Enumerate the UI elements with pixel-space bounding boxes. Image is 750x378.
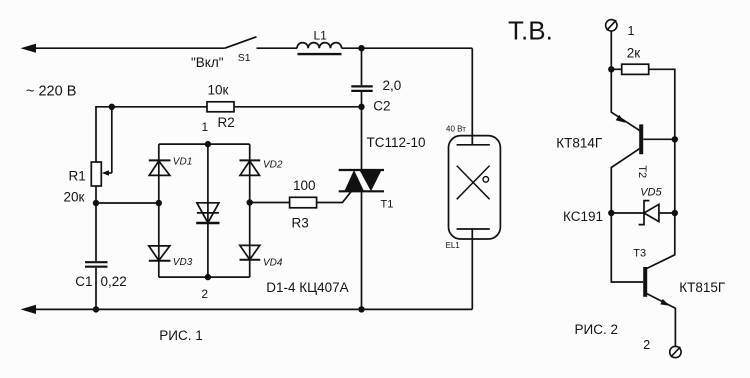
center diode pair symbol — [197, 203, 219, 223]
wire L1 to lamp corner — [342, 47, 473, 49]
svg-text:R2: R2 — [218, 115, 235, 130]
wire triac anode lower — [361, 191, 363, 309]
junction base T2 / right vertical — [672, 136, 678, 142]
wire C1 lower lead — [95, 268, 97, 310]
wire emitter T2 feed — [611, 69, 639, 130]
arrow left on bottom rail — [21, 305, 37, 314]
svg-text:КТ815Г: КТ815Г — [679, 280, 726, 295]
transistor T2 collector — [611, 149, 639, 213]
wire bottom rail — [30, 308, 472, 310]
wire R3 to triac gate — [317, 191, 352, 202]
wire terminal 1 lead — [610, 31, 612, 69]
junction R1/C1/bridge-left — [93, 200, 99, 206]
junction top rail / C2 branch — [358, 45, 364, 51]
transistor T3 emitter — [647, 294, 676, 347]
junction triac branch / bottom rail — [358, 306, 364, 312]
lamp electrode bottom — [457, 228, 490, 230]
svg-text:20к: 20к — [64, 189, 85, 204]
svg-text:Т2: Т2 — [636, 165, 648, 178]
wire R1 bottom lead — [95, 186, 97, 203]
transistor T3 emitter arrow — [660, 299, 669, 306]
wire R2 rail left part — [96, 107, 207, 162]
svg-text:Т1: Т1 — [381, 199, 394, 211]
junction zener left — [608, 210, 614, 216]
transistor T2 base bar — [639, 124, 643, 154]
triac T1 top bar — [339, 169, 384, 171]
wire right vertical to zener — [674, 139, 676, 213]
lamp cross — [457, 166, 490, 200]
svg-text:VD1: VD1 — [173, 157, 192, 168]
lamp EL1 body — [449, 136, 501, 239]
bridge bottom rail — [159, 276, 250, 278]
inductor L1 core — [298, 53, 342, 55]
wire collector T2 to T3 base — [611, 213, 643, 282]
svg-text:40 Вт: 40 Вт — [446, 125, 466, 134]
resistor 2к — [622, 64, 649, 74]
wire triac anode upper — [361, 107, 363, 170]
wire to bridge left mid — [96, 202, 159, 204]
svg-text:1: 1 — [202, 120, 209, 134]
wire 2k to right vertical — [649, 69, 675, 139]
diode VD2 — [240, 159, 261, 161]
triac T1 left triangle — [344, 170, 364, 191]
transistor T3 collector — [646, 213, 674, 269]
diode VD3 — [149, 246, 170, 261]
svg-text:C2: C2 — [373, 99, 390, 114]
svg-text:R3: R3 — [292, 215, 309, 230]
svg-text:Т.В.: Т.В. — [508, 16, 553, 46]
wire bridge to R3 — [250, 202, 290, 204]
resistor R2 — [207, 102, 234, 112]
svg-text:R1: R1 — [69, 169, 86, 184]
node 1 — [205, 141, 211, 147]
triac T1 bottom bar — [339, 190, 384, 192]
svg-text:Т3: Т3 — [633, 247, 646, 259]
svg-text:КТ814Г: КТ814Г — [556, 135, 603, 150]
wire lamp branch bottom — [471, 229, 473, 309]
junction C1 / bottom rail — [93, 306, 99, 312]
terminal 1 — [606, 20, 617, 31]
transistor T3 base bar — [643, 267, 647, 297]
wire top rail left segment — [30, 47, 225, 49]
svg-text:0,22: 0,22 — [101, 274, 127, 289]
svg-text:ТС112-10: ТС112-10 — [367, 135, 426, 150]
junction R1 wiper tap — [109, 104, 115, 110]
svg-text:S1: S1 — [238, 52, 251, 64]
svg-text:2: 2 — [643, 338, 650, 352]
node 2 — [205, 274, 211, 280]
wire C2 lower lead — [361, 92, 363, 107]
switch S1 — [225, 37, 257, 48]
svg-text:ЕL1: ЕL1 — [446, 241, 461, 250]
svg-text:VD3: VD3 — [173, 257, 193, 268]
capacitor C2 — [351, 85, 372, 87]
capacitor C1 — [85, 261, 108, 263]
svg-text:КС191: КС191 — [563, 209, 603, 224]
transistor T2 emitter arrow — [616, 115, 626, 123]
wire node to 2k — [611, 68, 621, 70]
potentiometer R1 body — [91, 162, 101, 186]
junction bridge left mid — [156, 200, 162, 206]
svg-text:РИС. 1: РИС. 1 — [159, 328, 202, 343]
svg-text:1: 1 — [628, 24, 635, 38]
svg-text:D1-4 КЦ407А: D1-4 КЦ407А — [266, 280, 348, 295]
svg-text:2к: 2к — [627, 46, 641, 61]
wire R2 to C2 node — [234, 106, 362, 108]
zener VD5 — [611, 212, 644, 214]
junction bridge right mid — [247, 199, 253, 205]
svg-text:"Вкл": "Вкл" — [191, 55, 224, 70]
svg-text:VD2: VD2 — [263, 159, 283, 170]
junction zener right — [672, 210, 678, 216]
diode VD1 — [149, 159, 171, 161]
resistor R3 — [290, 197, 317, 208]
svg-text:10к: 10к — [208, 83, 229, 98]
wire lamp branch top — [471, 48, 473, 145]
svg-text:100: 100 — [293, 178, 316, 193]
svg-text:РИС. 2: РИС. 2 — [575, 322, 618, 337]
potentiometer R1 wiper — [111, 107, 113, 173]
svg-text:2: 2 — [201, 287, 208, 301]
bridge top rail — [159, 143, 250, 145]
svg-text:VD4: VD4 — [263, 258, 283, 269]
arrow left on top rail — [21, 44, 37, 53]
wire C2 upper lead — [361, 48, 363, 85]
svg-text:~ 220 В: ~ 220 В — [26, 84, 76, 100]
bridge right branch wire — [249, 144, 251, 277]
svg-text:2,0: 2,0 — [383, 78, 402, 93]
wire switch to L1 — [257, 47, 298, 49]
bridge left branch wire — [158, 144, 160, 277]
svg-text:VD5: VD5 — [640, 186, 662, 198]
lamp dot circle — [483, 177, 489, 183]
triac T1 right triangle — [359, 170, 381, 191]
svg-text:C1: C1 — [75, 274, 92, 289]
bridge center branch wire — [207, 144, 209, 277]
lamp electrode top — [457, 144, 490, 146]
inductor L1 — [297, 43, 342, 49]
svg-text:L1: L1 — [314, 29, 328, 43]
diode VD4 — [240, 245, 260, 259]
transistor T2 base wire — [643, 138, 675, 140]
wire C1 upper lead — [95, 203, 97, 261]
junction 2k tap — [608, 66, 614, 72]
terminal 2 — [670, 346, 681, 357]
junction C2 / R2 wire — [358, 104, 364, 110]
